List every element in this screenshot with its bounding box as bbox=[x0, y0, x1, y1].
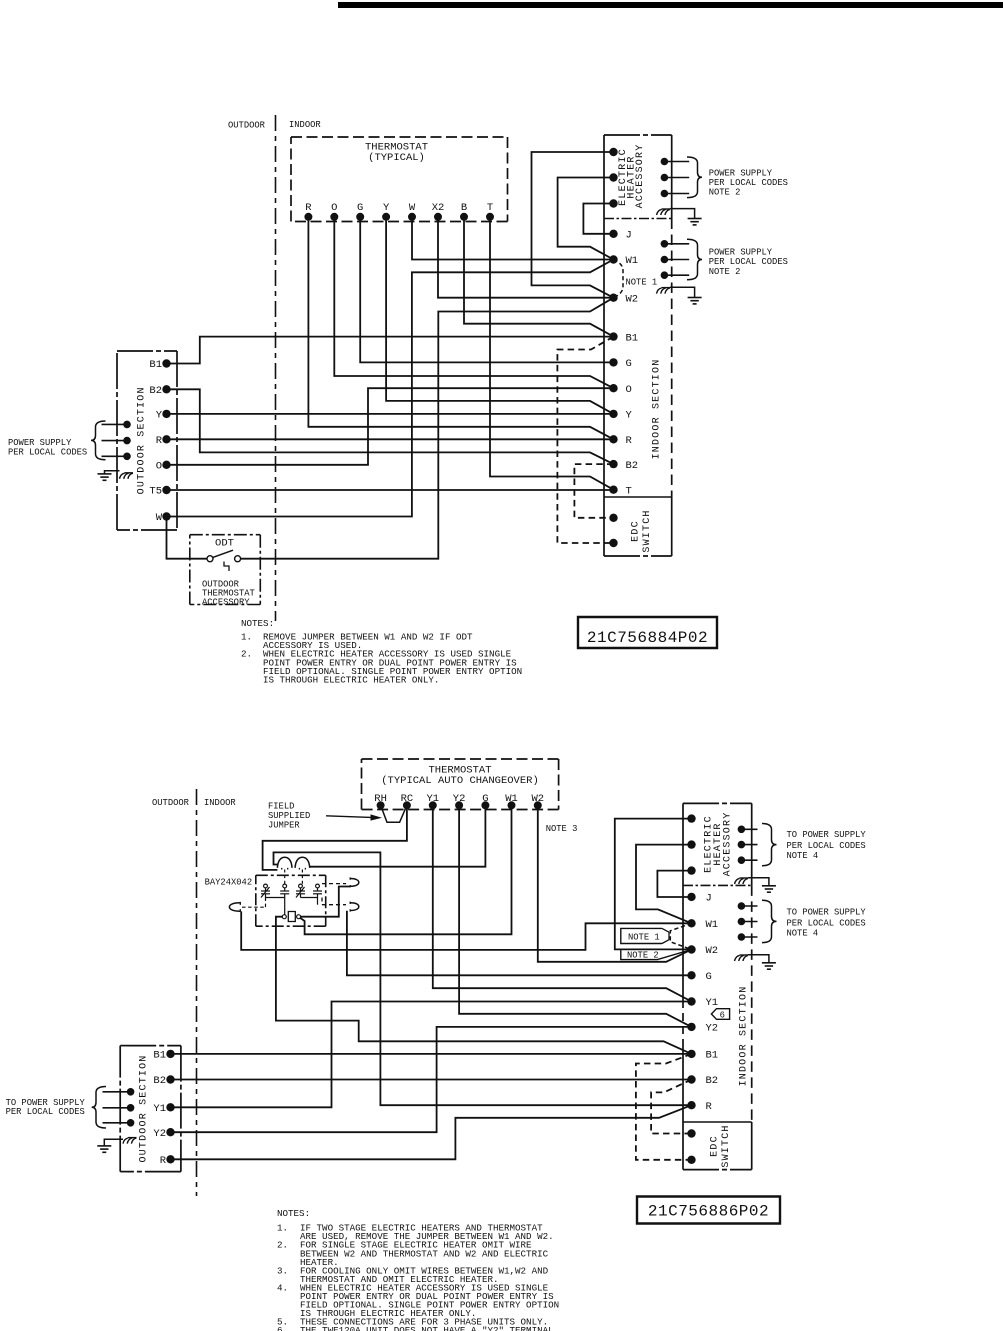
svg-text:R: R bbox=[160, 1155, 167, 1167]
svg-text:RH: RH bbox=[374, 793, 387, 805]
svg-text:NOTE 2: NOTE 2 bbox=[627, 951, 659, 961]
svg-text:W2: W2 bbox=[706, 945, 719, 957]
svg-text:1.: 1. bbox=[241, 631, 252, 642]
svg-text:PER LOCAL CODES: PER LOCAL CODES bbox=[709, 178, 788, 188]
svg-text:POWER SUPPLY: POWER SUPPLY bbox=[709, 168, 773, 178]
svg-text:Y1: Y1 bbox=[426, 793, 439, 805]
svg-text:Y2: Y2 bbox=[706, 1023, 719, 1035]
svg-text:O: O bbox=[626, 384, 632, 396]
svg-text:INDOOR: INDOOR bbox=[204, 798, 236, 808]
svg-text:4.: 4. bbox=[277, 1282, 288, 1293]
svg-text:NOTE 3: NOTE 3 bbox=[546, 824, 578, 834]
svg-text:X2: X2 bbox=[432, 202, 445, 214]
svg-text:EDC: EDC bbox=[710, 1135, 721, 1157]
svg-text:21C756886P02: 21C756886P02 bbox=[648, 1203, 769, 1221]
svg-text:SWITCH: SWITCH bbox=[642, 509, 653, 552]
svg-text:J: J bbox=[626, 230, 632, 242]
svg-text:OUTDOOR: OUTDOOR bbox=[152, 798, 190, 808]
svg-text:R: R bbox=[156, 435, 163, 447]
svg-text:Y2: Y2 bbox=[453, 793, 466, 805]
svg-text:B: B bbox=[461, 202, 467, 214]
svg-text:PER LOCAL CODES: PER LOCAL CODES bbox=[6, 1107, 85, 1117]
svg-text:ACCESSORY: ACCESSORY bbox=[635, 144, 646, 209]
svg-text:INDOOR: INDOOR bbox=[289, 120, 321, 130]
svg-text:IS THROUGH ELECTRIC HEATER ONL: IS THROUGH ELECTRIC HEATER ONLY. bbox=[263, 675, 439, 686]
svg-text:1.: 1. bbox=[277, 1223, 288, 1234]
svg-text:B2: B2 bbox=[153, 1075, 166, 1087]
svg-text:T: T bbox=[626, 485, 632, 497]
svg-text:W1: W1 bbox=[706, 919, 719, 931]
svg-text:21C756884P02: 21C756884P02 bbox=[587, 629, 708, 647]
svg-text:ACCESSORY: ACCESSORY bbox=[202, 597, 250, 607]
svg-text:BAY24X042: BAY24X042 bbox=[205, 877, 253, 887]
svg-text:OUTDOOR SECTION: OUTDOOR SECTION bbox=[139, 1054, 150, 1162]
svg-text:PER LOCAL CODES: PER LOCAL CODES bbox=[8, 448, 87, 458]
svg-text:B2: B2 bbox=[706, 1075, 719, 1087]
svg-text:T5: T5 bbox=[149, 486, 162, 498]
svg-text:G: G bbox=[706, 971, 712, 983]
svg-text:W2: W2 bbox=[626, 293, 639, 305]
svg-text:2.: 2. bbox=[241, 649, 252, 660]
svg-text:NOTE 2: NOTE 2 bbox=[709, 267, 741, 277]
svg-text:W: W bbox=[409, 202, 416, 214]
svg-text:B1: B1 bbox=[706, 1050, 719, 1062]
svg-text:NOTE 4: NOTE 4 bbox=[787, 929, 819, 939]
svg-text:NOTES:: NOTES: bbox=[241, 618, 274, 629]
svg-text:Y: Y bbox=[626, 410, 633, 422]
svg-text:W1: W1 bbox=[505, 793, 518, 805]
svg-text:B2: B2 bbox=[626, 460, 639, 472]
svg-text:TO POWER SUPPLY: TO POWER SUPPLY bbox=[787, 908, 867, 918]
svg-text:G: G bbox=[357, 202, 363, 214]
svg-text:INDOOR SECTION: INDOOR SECTION bbox=[652, 359, 663, 460]
svg-text:W1: W1 bbox=[626, 255, 639, 267]
svg-text:W2: W2 bbox=[531, 793, 544, 805]
svg-text:OUTDOOR: OUTDOOR bbox=[228, 121, 266, 131]
svg-text:Y1: Y1 bbox=[153, 1103, 166, 1115]
svg-text:B1: B1 bbox=[153, 1050, 166, 1062]
svg-text:INDOOR SECTION: INDOOR SECTION bbox=[738, 986, 749, 1087]
svg-text:FIELD: FIELD bbox=[268, 801, 294, 811]
svg-text:EDC: EDC bbox=[631, 520, 642, 542]
svg-text:J: J bbox=[706, 893, 712, 905]
svg-text:G: G bbox=[482, 793, 488, 805]
svg-text:Y2: Y2 bbox=[153, 1128, 166, 1140]
svg-text:PER LOCAL CODES: PER LOCAL CODES bbox=[787, 918, 866, 928]
svg-text:POWER SUPPLY: POWER SUPPLY bbox=[709, 247, 773, 257]
svg-text:B1: B1 bbox=[149, 359, 162, 371]
svg-text:NOTES:: NOTES: bbox=[277, 1208, 310, 1219]
svg-text:PER LOCAL CODES: PER LOCAL CODES bbox=[709, 257, 788, 267]
svg-text:O: O bbox=[331, 202, 337, 214]
svg-text:6.: 6. bbox=[277, 1325, 288, 1331]
svg-text:Y1: Y1 bbox=[706, 997, 719, 1009]
svg-text:ODT: ODT bbox=[215, 538, 234, 550]
svg-text:T: T bbox=[487, 202, 493, 214]
svg-text:NOTE 4: NOTE 4 bbox=[787, 851, 819, 861]
svg-text:B1: B1 bbox=[626, 332, 639, 344]
svg-text:O: O bbox=[156, 461, 162, 473]
svg-text:Y: Y bbox=[383, 202, 390, 214]
svg-text:3.: 3. bbox=[277, 1265, 288, 1276]
svg-text:R: R bbox=[305, 202, 312, 214]
svg-text:RC: RC bbox=[401, 793, 414, 805]
svg-text:NOTE 1: NOTE 1 bbox=[628, 933, 660, 943]
svg-text:2.: 2. bbox=[277, 1240, 288, 1251]
svg-text:OUTDOOR SECTION: OUTDOOR SECTION bbox=[137, 386, 148, 494]
svg-text:PER LOCAL CODES: PER LOCAL CODES bbox=[787, 841, 866, 851]
svg-text:ACCESSORY: ACCESSORY bbox=[723, 812, 734, 877]
svg-text:B2: B2 bbox=[149, 385, 162, 397]
svg-text:Y: Y bbox=[156, 410, 163, 422]
svg-text:NOTE 2: NOTE 2 bbox=[709, 188, 741, 198]
svg-text:POWER SUPPLY: POWER SUPPLY bbox=[8, 438, 72, 448]
svg-text:G: G bbox=[626, 358, 632, 370]
svg-text:SWITCH: SWITCH bbox=[721, 1124, 732, 1167]
svg-text:(TYPICAL): (TYPICAL) bbox=[368, 152, 425, 164]
svg-text:TO POWER SUPPLY: TO POWER SUPPLY bbox=[787, 830, 867, 840]
svg-text:R: R bbox=[706, 1101, 713, 1113]
svg-text:R: R bbox=[626, 435, 633, 447]
svg-text:(TYPICAL AUTO CHANGEOVER): (TYPICAL AUTO CHANGEOVER) bbox=[381, 775, 539, 787]
svg-text:JUMPER: JUMPER bbox=[268, 820, 300, 830]
svg-text:6: 6 bbox=[720, 1011, 725, 1021]
svg-text:SUPPLIED: SUPPLIED bbox=[268, 811, 310, 821]
svg-text:NOTE 1: NOTE 1 bbox=[626, 277, 658, 287]
svg-text:THE TWE120A UNIT DOES NOT HAVE: THE TWE120A UNIT DOES NOT HAVE A "Y2" TE… bbox=[300, 1325, 559, 1331]
svg-text:W: W bbox=[156, 512, 163, 524]
